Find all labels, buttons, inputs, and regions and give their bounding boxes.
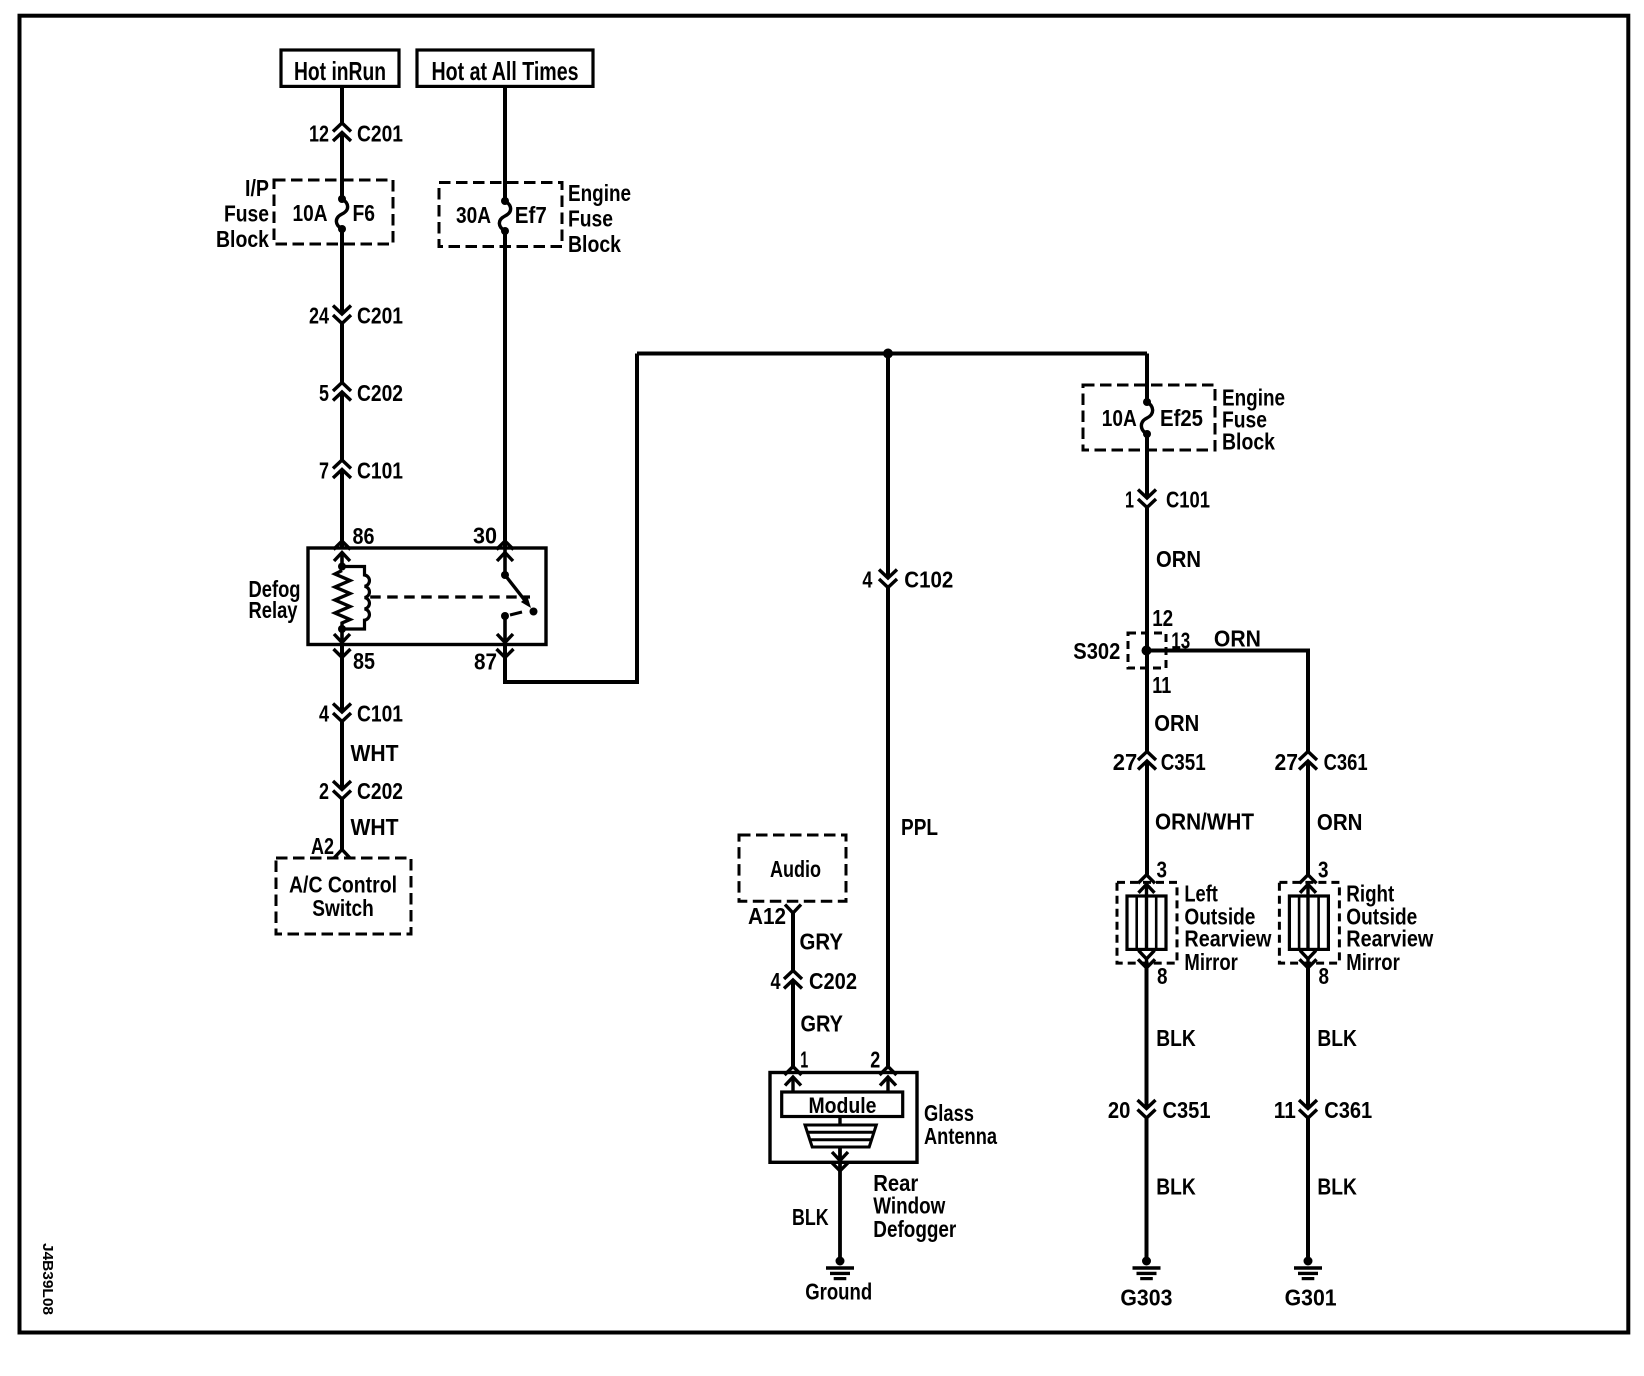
wire WHT [340,722,344,788]
wire fuse Ef25 to connector 1 C101 [1145,434,1149,496]
pin A12 exit chevron [785,905,801,914]
svg-text:G303: G303 [1120,1285,1172,1311]
connector 4 C102 [879,570,897,579]
wire into fuse F6 [340,180,344,199]
svg-text:Window: Window [873,1193,945,1219]
svg-text:Fuse: Fuse [224,201,269,227]
svg-text:BLK: BLK [792,1204,829,1230]
glass antenna box [770,1073,917,1163]
connector 7 C101 [333,460,351,469]
svg-text:87: 87 [474,649,497,675]
svg-text:27: 27 [1113,749,1138,775]
connector 4 C101 [333,704,351,713]
svg-text:C202: C202 [357,778,403,804]
svg-text:I/P: I/P [245,175,269,201]
svg-text:Block: Block [568,231,621,257]
wire ORN S302 to connector 27 C351 [1145,651,1149,752]
connector 27 C361 [1299,752,1317,761]
svg-text:GRY: GRY [801,1010,844,1036]
pin 30 entry chevron and arrow [497,541,514,550]
wire ORN to splice S302 [1145,508,1149,651]
pin 85 exit arrow and chevron [340,629,344,645]
svg-text:C102: C102 [904,567,953,593]
svg-text:1: 1 [1125,487,1134,513]
connector 5 C202 [333,383,351,392]
svg-text:C101: C101 [357,458,403,484]
svg-text:C361: C361 [1324,749,1368,775]
svg-text:11: 11 [1152,672,1171,698]
svg-text:5: 5 [319,380,329,406]
connector 2 C202 [333,781,351,790]
A/C Control Switch dashed box [276,858,411,934]
svg-text:C201: C201 [357,303,403,329]
splice S302 dashed box [1128,633,1166,668]
splice junction dot S302 [1142,646,1152,656]
wire WHT to A/C control switch [340,799,344,850]
svg-text:12: 12 [309,121,329,147]
I/P Fuse Block dashed box [274,180,393,244]
wire fuse Ef7 to relay pin 30 [503,231,507,548]
svg-text:4: 4 [319,701,329,727]
svg-text:ORN: ORN [1154,710,1199,736]
svg-text:C351: C351 [1163,1097,1211,1123]
svg-text:Module: Module [809,1093,877,1118]
ground symbol for defogger [836,1257,845,1266]
wire PPL from bus to connector 4 C102 [886,354,890,577]
svg-text:Rearview: Rearview [1346,926,1433,952]
svg-text:Fuse: Fuse [568,206,613,232]
svg-text:A12: A12 [748,903,786,929]
relay K1 Defog Relay box [308,548,546,645]
svg-text:12: 12 [1152,605,1173,631]
wire Hot inRun to connector 12 C201 [340,86,344,123]
ground exit arrow and chevron [838,1147,842,1261]
svg-text:30A: 30A [456,202,491,228]
svg-text:Block: Block [216,226,269,252]
svg-text:Hot at All Times: Hot at All Times [432,56,579,86]
wire BLK to ground G301 [1306,1118,1310,1261]
right outside rearview mirror dashed box [1279,882,1339,963]
junction node on bus [883,349,893,359]
svg-text:2: 2 [319,778,329,804]
svg-text:4: 4 [771,968,781,994]
ground G303 [1142,1257,1151,1266]
svg-text:BLK: BLK [1317,1173,1357,1199]
svg-text:G301: G301 [1285,1285,1337,1311]
svg-text:85: 85 [353,648,375,674]
right mirror exit arrow and chevron [1300,950,1316,959]
svg-text:4: 4 [862,567,872,593]
svg-text:BLK: BLK [1156,1025,1196,1051]
wire connector C101 to relay pin 86 [340,470,344,549]
power box Hot inRun [281,50,399,86]
fuse Ef25 10A [1143,398,1151,406]
svg-text:Audio: Audio [770,856,821,882]
power box Hot at All Times [417,50,593,86]
Engine Fuse Block Ef7 dashed box [439,183,562,247]
antenna element symbol [805,1125,876,1147]
wire connector C202 to connector 7 C101 [340,392,344,460]
connector 24 C201 [333,306,351,315]
wire ORN/WHT to left mirror [1145,761,1149,875]
fuse Ef7 30A [501,197,509,205]
svg-text:A/C Control: A/C Control [289,872,397,898]
relay switch dashed contact segment [510,612,522,615]
svg-text:ORN: ORN [1317,809,1363,835]
connector 11 C361 [1299,1100,1317,1109]
module box [782,1092,903,1117]
Engine Fuse Block Ef25 dashed box [1083,385,1215,450]
svg-text:3: 3 [1318,856,1329,882]
svg-text:20: 20 [1108,1097,1131,1123]
wire relay pin 85 to connector 4 C101 [340,645,344,711]
pin 86 entry chevron and arrow [334,541,351,550]
svg-text:WHT: WHT [351,814,399,840]
svg-text:ORN: ORN [1156,546,1201,572]
svg-text:11: 11 [1274,1097,1296,1123]
pin 1 entry chevron and arrow [785,1067,802,1076]
svg-text:C202: C202 [357,380,403,406]
wire connector C201 to connector 5 C202 [340,324,344,383]
svg-text:C351: C351 [1161,749,1206,775]
svg-text:C101: C101 [357,701,403,727]
wire fuse F6 to connector 24 C201 [340,229,344,312]
wire BLK left mirror to connector 20 C351 [1145,968,1149,1107]
ground G301 [1304,1257,1313,1266]
svg-text:Mirror: Mirror [1346,949,1400,975]
svg-text:10A: 10A [1102,405,1137,431]
right mirror entry chevron and arrow [1300,875,1317,884]
left outside rearview mirror dashed box [1117,882,1177,963]
svg-text:Block: Block [1222,429,1275,455]
svg-text:J4B39L08: J4B39L08 [39,1243,56,1315]
pin 87 exit arrow and chevron [503,616,507,645]
relay switch common dot pin 30 [501,571,509,579]
pin A2 entry triangle [334,850,350,859]
wire module to antenna element [838,1117,841,1126]
svg-text:8: 8 [1319,963,1330,989]
wire bus to Engine fuse block Ef25 [1145,354,1149,403]
svg-text:ORN/WHT: ORN/WHT [1155,808,1254,834]
left mirror exit arrow and chevron [1139,950,1155,959]
svg-text:Ef7: Ef7 [515,202,547,228]
wire BLK to ground G303 [1145,1118,1149,1261]
svg-text:Mirror: Mirror [1184,949,1238,975]
svg-text:24: 24 [309,303,329,329]
svg-text:8: 8 [1157,963,1168,989]
pin 2 entry chevron and arrow [880,1067,897,1076]
svg-text:GRY: GRY [800,929,844,955]
fuse F6 10A [338,195,346,203]
svg-text:PPL: PPL [901,814,938,840]
connector 20 C351 [1138,1100,1156,1109]
right mirror motor box [1289,896,1328,949]
wire GRY Audio to connector 4 C202 [791,913,795,971]
svg-text:S302: S302 [1073,638,1120,664]
wire horizontal bus [637,352,1147,356]
svg-text:C101: C101 [1166,487,1210,513]
svg-text:Switch: Switch [312,895,374,921]
svg-text:86: 86 [353,523,375,549]
svg-text:30: 30 [473,523,497,549]
svg-text:Defogger: Defogger [873,1216,956,1242]
connector 27 C351 [1138,752,1156,761]
relay coil resistor [338,563,346,571]
svg-text:7: 7 [319,458,329,484]
wire ORN to right mirror [1306,761,1310,875]
connector 12 C201 [333,123,351,132]
svg-text:Rearview: Rearview [1184,926,1271,952]
svg-text:Hot inRun: Hot inRun [294,56,386,86]
svg-text:Engine: Engine [568,180,631,206]
wire relay pin 87 down right and up to bus [505,354,637,683]
connector 4 C202 [784,971,802,980]
wire ORN from S302 to right mirror column [1147,651,1309,752]
svg-text:Antenna: Antenna [924,1123,997,1149]
svg-text:Ef25: Ef25 [1160,405,1203,431]
svg-text:BLK: BLK [1156,1173,1196,1199]
wire connector C201 to I/P fuse block [340,133,344,181]
svg-text:C202: C202 [809,968,857,994]
svg-text:2: 2 [870,1047,880,1073]
svg-text:Relay: Relay [249,597,298,623]
relay coil bracket [342,567,369,630]
wire GRY to glass antenna pin 1 [791,980,795,1067]
svg-text:A2: A2 [311,833,334,859]
svg-text:3: 3 [1157,856,1168,882]
left mirror entry chevron and arrow [1138,875,1155,884]
svg-text:1: 1 [800,1047,808,1073]
left mirror motor box [1127,896,1166,949]
svg-text:BLK: BLK [1317,1025,1357,1051]
wire Hot at All Times to Engine fuse block [503,86,507,201]
wire BLK right mirror to connector 11 C361 [1306,968,1310,1107]
svg-text:WHT: WHT [351,740,399,766]
relay switch contact dot [530,608,538,616]
svg-text:27: 27 [1275,749,1299,775]
relay pin 87 dot [501,612,509,620]
svg-text:ORN: ORN [1214,625,1261,651]
relay switch arm [505,575,527,603]
wire PPL to glass antenna pin 2 [886,588,890,1067]
relay actuation dashed link [370,595,530,598]
connector 1 C101 [1138,490,1156,499]
svg-text:Ground: Ground [805,1279,872,1305]
svg-text:C201: C201 [357,121,403,147]
svg-text:F6: F6 [353,200,376,226]
Audio dashed box [739,835,846,901]
svg-text:10A: 10A [293,200,328,226]
svg-text:C361: C361 [1324,1097,1372,1123]
